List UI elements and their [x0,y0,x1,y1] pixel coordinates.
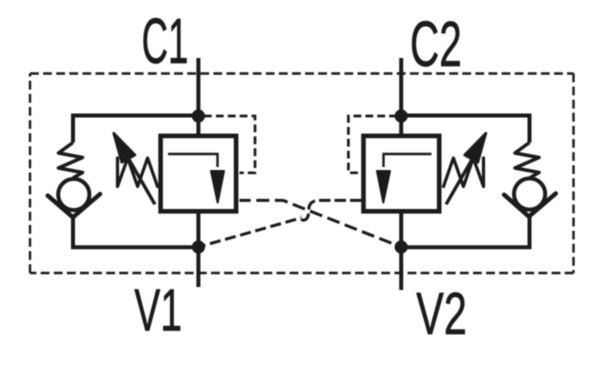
svg-text:V1: V1 [134,277,182,343]
svg-text:C2: C2 [410,10,462,81]
svg-text:C1: C1 [142,7,189,78]
svg-text:V2: V2 [416,281,467,347]
